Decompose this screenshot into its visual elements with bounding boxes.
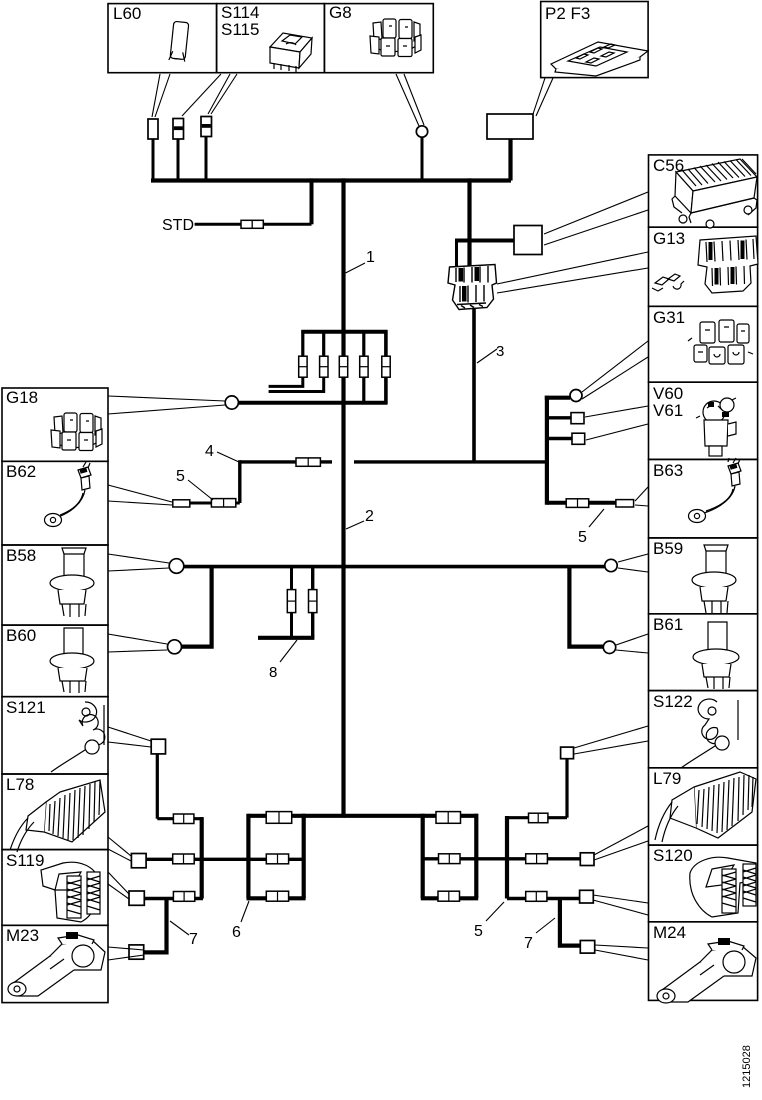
- svg-text:M24: M24: [653, 923, 686, 942]
- wire: to V61 square: [547, 437, 572, 440]
- svg-text:B59: B59: [653, 539, 683, 558]
- drawing B63 sensor w/ pigtail: [689, 458, 742, 523]
- leader for label 5: [188, 480, 213, 500]
- wire: S121 horizontal to cluster: [157, 817, 203, 820]
- connector 3 (S115 lead): [201, 117, 212, 137]
- leader M24 box to square: [595, 945, 648, 960]
- svg-text:5: 5: [176, 468, 185, 485]
- svg-text:5: 5: [578, 529, 587, 546]
- wire: short stub into G13 top: [455, 239, 458, 268]
- ladder wire v5: [384, 330, 388, 404]
- G13 in-situ connector: [448, 265, 497, 310]
- ladder: bottom bus to G18 grommet: [238, 401, 388, 405]
- wire: S122 drop vertical: [565, 759, 568, 818]
- ladder wire v2 upper: [322, 330, 325, 357]
- connector on right bus rung: [436, 812, 461, 824]
- wire: spine top to G31 grommet: [545, 396, 570, 400]
- svg-text:B60: B60: [6, 626, 36, 645]
- leader G31 box to grommet: [582, 341, 648, 399]
- wire: horizontal to junction block: [457, 239, 515, 243]
- ladder wire v1 lower + exit left: [269, 377, 303, 386]
- svg-text:G31: G31: [653, 308, 685, 327]
- wire: hanging pair v1 lower: [290, 612, 293, 637]
- connector on middle rung (loop): [266, 854, 288, 864]
- node: B58 grommet: [169, 559, 184, 574]
- leader L79 box to square: [594, 826, 648, 860]
- LEADERS: [108, 74, 648, 960]
- leader G8 box to grommet: [396, 74, 424, 126]
- leader for label 3: [477, 349, 497, 363]
- connector hanging 2: [309, 590, 317, 613]
- wire: vertical below G13 to V-branch: [472, 308, 476, 462]
- wire: vertical to G13 connector: [467, 178, 471, 267]
- svg-text:G13: G13: [653, 229, 685, 248]
- wire: hanging pair v2 lower: [311, 612, 314, 637]
- svg-text:7: 7: [524, 935, 533, 952]
- leader for label 7 right: [536, 918, 555, 933]
- wire: right drop to B61: [569, 567, 603, 647]
- svg-text:8: 8: [269, 664, 277, 681]
- drawing S121 switch w/ pigtail: [51, 702, 105, 772]
- node: B60 grommet: [168, 640, 182, 654]
- wire: S121 drop vertical: [156, 754, 159, 819]
- drawing M24 motor: [657, 938, 756, 1003]
- box L60: [108, 4, 217, 73]
- leader for label 5 right: [589, 509, 604, 527]
- left loop vertical B: [302, 814, 306, 899]
- M24 square terminal: [580, 941, 594, 954]
- connector on left bus: [266, 812, 292, 824]
- ladder wire v1 upper: [301, 330, 304, 357]
- wire: to V60 square: [547, 416, 571, 419]
- drawing S119 connector: [41, 862, 100, 922]
- connector on S122 lead: [529, 813, 548, 823]
- drawing G13 connector: [652, 236, 758, 293]
- leader B62 box to line 5 end: [108, 485, 172, 505]
- drawing S114/S115 relay: [270, 33, 312, 72]
- svg-text:B63: B63: [653, 461, 683, 480]
- lower junction: bus left of trunk: [248, 814, 345, 818]
- wire: STD branch vertical: [310, 178, 314, 224]
- svg-text:L79: L79: [653, 769, 681, 788]
- svg-text:L60: L60: [113, 4, 141, 23]
- svg-text:1: 1: [366, 249, 375, 266]
- svg-text:P2 F3: P2 F3: [545, 4, 590, 23]
- leader for label 1: [346, 263, 366, 273]
- wire: left drop to B60: [182, 567, 212, 647]
- svg-text:S119: S119: [6, 851, 44, 870]
- drawing P2 F3 fuse panel: [551, 42, 648, 76]
- right loop bottom rung: [421, 896, 478, 900]
- connector on line 4: [296, 458, 320, 466]
- leader B58 box to grommet: [108, 554, 169, 571]
- wire: central trunk vertical (1/2): [341, 178, 345, 815]
- connector a on line 5: [173, 500, 190, 507]
- svg-text:B61: B61: [653, 615, 683, 634]
- svg-text:3: 3: [496, 343, 504, 360]
- wire: hanging pair bottom bar: [258, 636, 314, 640]
- svg-text:L78: L78: [6, 775, 34, 794]
- drawing B58 sensor: [50, 548, 94, 617]
- drawing G31 connector: [688, 320, 753, 364]
- svg-text:2: 2: [365, 508, 374, 525]
- svg-text:1215028: 1215028: [741, 1045, 753, 1088]
- drawing C56 battery unit: [672, 159, 757, 228]
- box P2 F3: [541, 2, 648, 78]
- svg-text:S120: S120: [653, 846, 693, 865]
- connector on middle rung (outer): [173, 854, 195, 864]
- left loop middle rung: [146, 858, 304, 861]
- connector 1 (L60 lead): [148, 119, 158, 139]
- drawing M23 motor: [8, 932, 105, 996]
- wire: line 4 horizontal right segment: [354, 460, 547, 463]
- svg-text:7: 7: [189, 931, 198, 948]
- leader L60 box to connector 1: [152, 74, 170, 117]
- wire: STD lead horizontal: [195, 223, 312, 226]
- connector on right middle rung (loop): [439, 854, 461, 864]
- right loop vertical B: [474, 814, 478, 899]
- wire: hanging pair v1: [290, 567, 293, 590]
- wire: line 4/5 corner vertical: [238, 460, 241, 503]
- V-branch spine vertical: [545, 396, 549, 505]
- box G8: [324, 4, 433, 73]
- drawing L79 lamp: [655, 772, 756, 842]
- S119 square terminal: [129, 891, 144, 905]
- leader S115 box to connector 3: [208, 74, 237, 114]
- node: B61 grommet: [603, 641, 615, 653]
- connector on S120 rung: [526, 892, 547, 902]
- leader S119 box to square: [108, 872, 129, 899]
- S121 square terminal: [151, 739, 165, 754]
- leader S121 box to square: [108, 727, 151, 747]
- connector block P2/F3: [487, 114, 533, 139]
- drawing L78 lamp: [10, 780, 105, 852]
- leader for label 2: [346, 521, 364, 529]
- leader for label 5 bottom: [486, 902, 504, 921]
- leader for label 7 left: [170, 921, 189, 935]
- svg-text:STD: STD: [162, 217, 194, 234]
- ladder: top bus: [301, 330, 387, 334]
- leader for label 8: [280, 640, 297, 662]
- connector 2 (S114 lead): [173, 119, 184, 140]
- connector hanging 1: [287, 590, 295, 613]
- wire: stub to connector 3: [205, 136, 208, 181]
- drawing S122 switch w/ pigtail: [681, 699, 738, 768]
- node: G8 grommet circle: [416, 126, 427, 137]
- connector on right loop bottom rung: [438, 891, 460, 901]
- connector b on line 5: [211, 499, 235, 507]
- leader for label 4: [217, 452, 239, 462]
- left loop vertical A: [246, 814, 250, 899]
- svg-text:B58: B58: [6, 546, 36, 565]
- wire: S122 horizontal: [507, 816, 567, 819]
- node: G18 grommet circle: [225, 396, 238, 409]
- drawing B59 sensor: [692, 545, 736, 614]
- leader V60 V61 box to square terminals: [585, 406, 648, 440]
- svg-text:S121: S121: [6, 698, 46, 717]
- S120 square terminal: [580, 890, 594, 903]
- leader M23 box to square: [108, 947, 144, 960]
- drawing G8 round connector: [370, 19, 421, 57]
- junction block (C56 lead): [514, 226, 542, 255]
- svg-text:M23: M23: [6, 926, 39, 945]
- right column boxes C56 G13 G31 V60V61 B63 B59 B61 S122 L79 S120 M24: [649, 155, 758, 227]
- svg-text:G8: G8: [329, 3, 352, 22]
- drawing V60/V61 solenoid: [696, 398, 736, 456]
- ladder connector 5: [382, 356, 390, 377]
- leader C56 box to junction block: [544, 192, 648, 245]
- wire: stub to G8 grommet: [421, 137, 424, 181]
- leader B60 box to grommet: [108, 634, 167, 652]
- left loop bottom rung: [247, 896, 306, 900]
- ladder connector 3 (on trunk): [339, 356, 347, 377]
- drawing B62 sensor w/ pigtail: [45, 462, 92, 527]
- drawing B60 sensor: [50, 628, 94, 693]
- wire: S119 rung: [144, 897, 203, 900]
- leader for label 6: [241, 901, 249, 922]
- wire: top trunk horizontal: [151, 178, 511, 182]
- leader G18 box to grommet: [108, 396, 225, 414]
- drawing B61 sensor: [693, 622, 739, 689]
- connector on left loop bottom rung: [266, 891, 288, 901]
- leader P2 F3 box to block: [533, 78, 553, 116]
- leader S120 box to square: [593, 895, 648, 915]
- drawing L60 bulb: [169, 21, 189, 61]
- leader S122 box to square: [574, 726, 648, 754]
- wire: S120 rung: [507, 897, 580, 900]
- connector b on B63 lead: [616, 500, 634, 507]
- ladder wire v4: [362, 330, 365, 404]
- connector a on B63 lead: [566, 499, 589, 508]
- drawing S120 connector: [690, 857, 756, 917]
- wire: stub to connector 2: [177, 138, 180, 181]
- leader B61 box to grommet: [616, 634, 648, 653]
- right loop vertical A: [421, 814, 425, 899]
- wire: stub from P2/F3 block: [508, 139, 512, 181]
- leader B59 box to grommet: [618, 554, 648, 572]
- left column boxes G18 B62 B58 B60 S121 L78 S119 M23: [2, 388, 108, 461]
- svg-text:5: 5: [474, 923, 483, 940]
- connector on S119 rung: [173, 892, 194, 902]
- wire: hanging pair v2: [311, 567, 314, 590]
- M23 square terminal: [129, 945, 144, 959]
- wire: B63 lead horizontal: [547, 501, 634, 505]
- leader L78 box to square: [108, 837, 131, 861]
- svg-text:V61: V61: [653, 401, 683, 420]
- connector on right middle rung (outer): [526, 854, 548, 864]
- L78 square terminal: [131, 854, 146, 868]
- svg-text:S115: S115: [221, 20, 259, 39]
- wire: M24 drop: [560, 899, 580, 946]
- ladder connector 4: [360, 356, 368, 377]
- svg-text:6: 6: [232, 924, 241, 941]
- ladder wire v2 lower + exit left: [269, 377, 324, 392]
- right cluster vertical x507: [505, 816, 509, 899]
- S122 square terminal: [561, 747, 574, 759]
- box S114 S115: [217, 4, 325, 73]
- right middle rung: [423, 857, 581, 860]
- ladder connector 1: [299, 356, 307, 377]
- svg-text:B62: B62: [6, 462, 36, 481]
- square terminal V61: [572, 433, 585, 444]
- svg-text:G18: G18: [6, 388, 38, 407]
- wire: M23 drop: [144, 899, 167, 953]
- ladder connector 2: [320, 356, 328, 377]
- svg-text:S122: S122: [653, 692, 693, 711]
- left cluster vertical x202: [200, 817, 204, 898]
- node: B59 grommet: [605, 559, 617, 571]
- node: G31 grommet circle: [570, 390, 582, 402]
- leader S114 box to connector 2: [182, 74, 221, 116]
- wire: stub to connector 1: [152, 138, 155, 181]
- connector on STD lead: [241, 220, 263, 228]
- leader G13 box to in-situ connector: [497, 252, 648, 293]
- drawing G18 round connector: [51, 413, 102, 451]
- lower junction: bus right of trunk: [344, 814, 479, 818]
- square terminal V60: [571, 413, 584, 424]
- wire: B58-B59 main horizontal: [183, 565, 606, 569]
- wire: line 4 horizontal left segment: [240, 460, 332, 463]
- L79 square terminal: [580, 853, 594, 866]
- connector on S121 lead: [173, 814, 194, 824]
- svg-text:4: 4: [205, 443, 214, 460]
- leader B63 box to lead end: [635, 487, 648, 506]
- wire: line 5 horizontal: [173, 502, 240, 505]
